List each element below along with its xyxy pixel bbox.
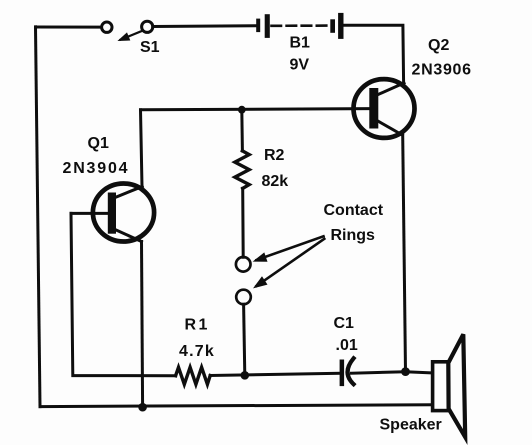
contact rings pointer arrow upper xyxy=(253,236,324,261)
svg-text:82k: 82k xyxy=(262,173,289,190)
wire top-left horizontal xyxy=(36,26,102,29)
capacitor C1 right curved plate xyxy=(348,358,354,384)
battery B1 dashed link xyxy=(272,24,330,27)
wire Q2 collector down to speaker node xyxy=(403,135,406,372)
svg-text:Q1: Q1 xyxy=(88,135,109,152)
node junction dot contact ring / R1 xyxy=(241,371,250,380)
transistor Q1 emitter diagonal xyxy=(115,230,142,242)
battery B1 cell1 long plate xyxy=(265,14,270,38)
transistor Q1 collector diagonal xyxy=(115,187,142,198)
svg-text:C1: C1 xyxy=(334,315,355,332)
wire S1 to battery xyxy=(153,24,256,28)
transistor Q2 circle xyxy=(354,79,415,138)
svg-text:R1: R1 xyxy=(185,316,210,333)
battery B1 cell1 short plate xyxy=(256,19,260,32)
battery B1 cell2 long plate xyxy=(338,13,343,39)
wire C1 to speaker xyxy=(352,372,433,374)
wire Q1 emitter down to bottom rail xyxy=(142,242,143,408)
wire battery to Q2 top xyxy=(344,25,404,83)
speaker driver box xyxy=(433,362,449,411)
speaker cone xyxy=(448,334,465,437)
battery B1 cell2 short plate xyxy=(330,19,335,33)
switch S1 contact circle left xyxy=(102,22,112,32)
svg-text:4.7k: 4.7k xyxy=(179,343,215,360)
capacitor C1 left plate xyxy=(340,360,345,387)
wire bottom rail xyxy=(40,405,433,407)
transistor Q1 base bar xyxy=(108,193,116,234)
transistor Q2 base bar xyxy=(369,88,378,129)
transistor Q2 collector diagonal xyxy=(377,121,402,136)
svg-text:2N3906: 2N3906 xyxy=(412,61,472,78)
wire Q1 base lead xyxy=(71,212,108,215)
svg-text:2N3904: 2N3904 xyxy=(63,160,130,177)
wire Q1 base down-left to R1 row xyxy=(71,213,176,375)
svg-text:R2: R2 xyxy=(264,147,285,164)
wire bottom ring to R1 node xyxy=(244,304,245,375)
node junction dot mid wire xyxy=(238,106,246,114)
wire R2 to top contact ring xyxy=(241,188,245,257)
resistor R1 zigzag xyxy=(176,367,211,384)
svg-text:Contact: Contact xyxy=(324,202,384,219)
svg-text:S1: S1 xyxy=(140,39,160,56)
node junction dot Q2 collector / speaker xyxy=(401,367,410,376)
transistor Q2 emitter diagonal xyxy=(377,83,404,95)
switch S1 arm arrow xyxy=(117,31,142,41)
resistor R2 zigzag xyxy=(235,151,249,189)
node junction dot bottom rail / Q1 emitter xyxy=(138,403,147,412)
contact ring top xyxy=(236,257,251,272)
wire R1 to C1 xyxy=(210,373,339,375)
svg-text:.01: .01 xyxy=(336,337,358,354)
contact ring bottom xyxy=(236,290,251,305)
wire node down to R2 xyxy=(240,110,244,151)
svg-text:B1: B1 xyxy=(290,34,311,51)
svg-text:Rings: Rings xyxy=(331,227,376,244)
contact rings pointer arrow lower xyxy=(253,239,324,289)
svg-text:9V: 9V xyxy=(290,56,310,73)
svg-text:Speaker: Speaker xyxy=(380,416,442,433)
transistor Q1 circle xyxy=(93,184,154,242)
wire Q1 collector up xyxy=(141,110,143,187)
svg-text:Q2: Q2 xyxy=(428,37,449,54)
wire mid horizontal (Q1 collector to Q2 base) xyxy=(141,109,370,110)
wire left vertical rail xyxy=(36,27,41,407)
switch S1 contact circle right xyxy=(142,21,153,32)
